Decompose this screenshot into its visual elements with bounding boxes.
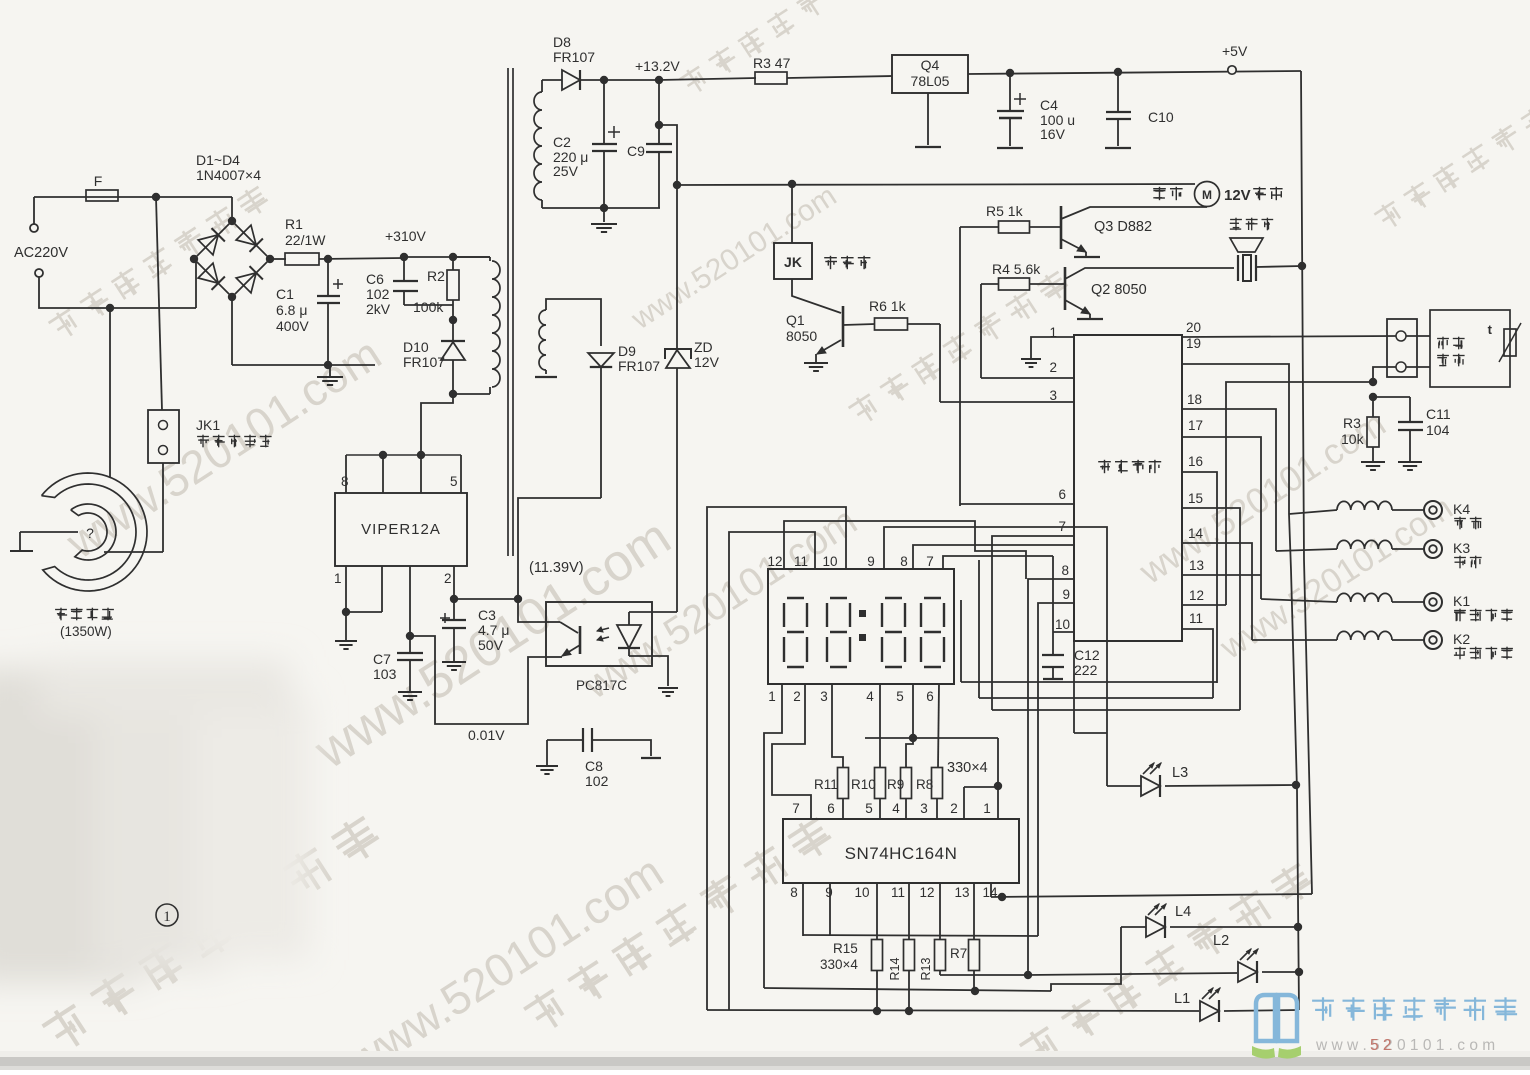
svg-text:103: 103 — [373, 666, 397, 682]
svg-text:C6: C6 — [366, 271, 384, 287]
svg-text:R15: R15 — [833, 941, 858, 956]
svg-text:1: 1 — [334, 571, 342, 586]
svg-text:L3: L3 — [1172, 765, 1188, 781]
svg-text:K3: K3 — [1453, 540, 1470, 556]
svg-text:2kV: 2kV — [366, 301, 391, 317]
svg-text:9: 9 — [867, 554, 875, 569]
svg-text:Q1: Q1 — [786, 312, 805, 328]
svg-text:F: F — [94, 173, 103, 189]
svg-text:AC220V: AC220V — [14, 245, 68, 261]
svg-text:VIPER12A: VIPER12A — [361, 521, 441, 538]
svg-text:20: 20 — [1186, 320, 1201, 335]
svg-text:5 2: 5 2 — [1370, 1037, 1392, 1054]
svg-text:2: 2 — [444, 571, 452, 586]
svg-text:C11: C11 — [1426, 406, 1451, 422]
svg-text:100k: 100k — [413, 299, 444, 315]
svg-text:FR107: FR107 — [403, 354, 445, 370]
svg-text:10: 10 — [854, 885, 869, 900]
svg-text:400V: 400V — [276, 318, 309, 334]
svg-text:R9: R9 — [887, 777, 904, 792]
svg-text:M: M — [1202, 188, 1212, 202]
svg-text:6: 6 — [1058, 487, 1066, 502]
svg-text:11: 11 — [794, 554, 808, 569]
svg-text:1: 1 — [768, 689, 776, 704]
svg-text:JK: JK — [784, 254, 802, 270]
svg-text:FR107: FR107 — [553, 49, 595, 65]
svg-text:8: 8 — [900, 554, 908, 569]
svg-text:222: 222 — [1074, 662, 1098, 678]
svg-text:R5 1k: R5 1k — [986, 203, 1024, 219]
svg-text:78L05: 78L05 — [911, 73, 950, 89]
svg-text:1: 1 — [983, 801, 991, 816]
svg-text:(11.39V): (11.39V) — [529, 560, 584, 576]
svg-text:C9: C9 — [627, 143, 645, 159]
svg-text:3: 3 — [920, 801, 928, 816]
svg-text:102: 102 — [585, 773, 609, 789]
svg-text:12: 12 — [919, 885, 934, 900]
svg-text:5: 5 — [450, 474, 458, 489]
svg-text:Q2 8050: Q2 8050 — [1091, 282, 1147, 298]
svg-text:9: 9 — [825, 885, 833, 900]
svg-text:R7: R7 — [950, 946, 967, 961]
svg-text:18: 18 — [1187, 392, 1202, 407]
svg-text:L4: L4 — [1175, 904, 1191, 920]
svg-text:D10: D10 — [403, 339, 429, 355]
svg-text:L1: L1 — [1174, 991, 1190, 1007]
svg-text:R6 1k: R6 1k — [869, 298, 907, 314]
svg-text:12: 12 — [767, 554, 782, 569]
svg-text:8050: 8050 — [786, 328, 817, 344]
svg-text:?: ? — [86, 525, 94, 541]
svg-text:R11: R11 — [814, 777, 838, 792]
svg-text:7: 7 — [926, 554, 934, 569]
svg-text:102: 102 — [366, 286, 390, 302]
svg-text:13: 13 — [1189, 558, 1204, 573]
svg-text:16V: 16V — [1040, 126, 1066, 142]
svg-text:5: 5 — [865, 801, 873, 816]
svg-text:Q4: Q4 — [921, 57, 940, 73]
svg-text:4: 4 — [892, 801, 900, 816]
svg-text:C3: C3 — [478, 607, 496, 623]
svg-text:4: 4 — [866, 689, 874, 704]
svg-text:C2: C2 — [553, 134, 571, 150]
svg-text:104: 104 — [1426, 422, 1450, 438]
svg-text:2: 2 — [950, 801, 958, 816]
svg-text:10k: 10k — [1341, 431, 1365, 447]
svg-text:w w w . 5 2 0 1 0 1 . c o m: w w w . 5 2 0 1 0 1 . c o m — [1315, 1037, 1495, 1054]
svg-text:R10: R10 — [851, 777, 876, 792]
svg-text:D9: D9 — [618, 343, 636, 359]
svg-text:6: 6 — [926, 689, 934, 704]
svg-text:R1: R1 — [285, 216, 303, 232]
svg-text:Q3 D882: Q3 D882 — [1094, 219, 1152, 235]
svg-text:17: 17 — [1188, 418, 1203, 433]
svg-text:9: 9 — [1062, 587, 1070, 602]
svg-text:3: 3 — [820, 689, 828, 704]
svg-text:6.8 μ: 6.8 μ — [276, 302, 307, 318]
svg-text:2: 2 — [1049, 360, 1057, 375]
svg-text:14: 14 — [1188, 526, 1204, 541]
svg-text:6: 6 — [827, 801, 835, 816]
svg-text:25V: 25V — [553, 163, 579, 179]
svg-text:19: 19 — [1186, 336, 1201, 351]
svg-text:R2: R2 — [427, 268, 445, 284]
svg-text:R3: R3 — [1343, 415, 1361, 431]
svg-text:2: 2 — [793, 689, 801, 704]
svg-text:ZD: ZD — [694, 339, 713, 355]
svg-text:L2: L2 — [1213, 933, 1229, 949]
svg-text:10: 10 — [822, 554, 837, 569]
svg-text:FR107: FR107 — [618, 358, 660, 374]
svg-text:+310V: +310V — [385, 228, 427, 244]
svg-text:+5V: +5V — [1222, 43, 1248, 59]
svg-text:12: 12 — [1189, 588, 1204, 603]
svg-text:8: 8 — [790, 885, 798, 900]
svg-text:C4: C4 — [1040, 97, 1058, 113]
svg-text:JK1: JK1 — [196, 417, 220, 433]
svg-text:22/1W: 22/1W — [285, 232, 326, 248]
svg-text:3: 3 — [1049, 388, 1057, 403]
svg-text:13: 13 — [954, 885, 969, 900]
svg-text:12V: 12V — [1224, 187, 1251, 204]
svg-text:C10: C10 — [1148, 109, 1174, 125]
svg-text:C7: C7 — [373, 651, 391, 667]
svg-text:D8: D8 — [553, 34, 571, 50]
svg-text:330×4: 330×4 — [947, 760, 988, 776]
svg-text:10: 10 — [1055, 617, 1070, 632]
svg-text:4.7 μ: 4.7 μ — [478, 622, 509, 638]
svg-text:11: 11 — [891, 885, 905, 900]
svg-text:7: 7 — [792, 801, 800, 816]
svg-text:R14: R14 — [888, 957, 902, 980]
svg-text:(1350W): (1350W) — [60, 624, 112, 639]
svg-text:PC817C: PC817C — [576, 678, 627, 693]
svg-text:8: 8 — [1061, 563, 1069, 578]
svg-text:t: t — [1488, 322, 1493, 337]
svg-text:K4: K4 — [1453, 501, 1470, 517]
svg-text:SN74HC164N: SN74HC164N — [845, 844, 958, 863]
svg-text:1N4007×4: 1N4007×4 — [196, 167, 261, 183]
svg-text:1: 1 — [163, 909, 171, 925]
svg-text:K1: K1 — [1453, 593, 1470, 609]
svg-text:11: 11 — [1189, 611, 1203, 626]
svg-text:C8: C8 — [585, 758, 603, 774]
svg-text:15: 15 — [1188, 491, 1203, 506]
svg-text:16: 16 — [1188, 454, 1203, 469]
svg-text:8: 8 — [341, 474, 349, 489]
svg-text:R13: R13 — [919, 957, 933, 980]
svg-text:+13.2V: +13.2V — [635, 58, 680, 74]
svg-text:K2: K2 — [1453, 631, 1470, 647]
svg-text:C12: C12 — [1074, 647, 1100, 663]
svg-text:12V: 12V — [694, 354, 720, 370]
svg-text:D1~D4: D1~D4 — [196, 152, 240, 168]
svg-text:0.01V: 0.01V — [468, 727, 505, 743]
svg-text:330×4: 330×4 — [820, 957, 858, 972]
svg-text:R8: R8 — [916, 777, 933, 792]
svg-text:C1: C1 — [276, 286, 294, 302]
svg-text:50V: 50V — [478, 637, 504, 653]
svg-text:R3 47: R3 47 — [753, 55, 791, 71]
svg-text:5: 5 — [896, 689, 904, 704]
svg-text:R4 5.6k: R4 5.6k — [992, 261, 1041, 277]
